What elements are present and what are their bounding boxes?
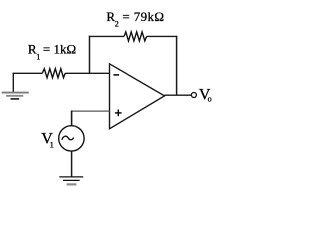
op-amp minus sign xyxy=(113,74,119,76)
resistor R2 xyxy=(124,32,147,41)
wire: feedback right vertical xyxy=(176,36,178,96)
source V1 xyxy=(59,126,84,151)
wire: V1 bottom vertical xyxy=(71,151,73,177)
op-amp plus sign xyxy=(115,110,122,117)
wire: V1 top vertical xyxy=(71,111,73,126)
wire: feedback left vertical xyxy=(89,36,91,74)
wire: noninverting input horizontal xyxy=(71,110,110,112)
V1 sine tilde xyxy=(62,136,74,140)
wire: R1 to inverting input xyxy=(65,72,109,74)
wire: ground to R1 xyxy=(13,72,43,74)
svg-text:1: 1 xyxy=(50,140,54,150)
label R2 = 79kΩ xyxy=(106,9,164,29)
svg-text:= 1kΩ: = 1kΩ xyxy=(43,42,76,57)
label R1 = 1kΩ xyxy=(28,42,76,62)
svg-text:2: 2 xyxy=(115,20,119,29)
wire: top rail left xyxy=(89,35,124,37)
label V1 xyxy=(41,130,54,149)
ground GND1 (left, signal ground) xyxy=(2,73,29,99)
svg-text:= 79kΩ: = 79kΩ xyxy=(122,9,164,24)
svg-text:1: 1 xyxy=(36,52,40,61)
label Vo xyxy=(199,86,212,103)
resistor R1 xyxy=(42,69,65,78)
svg-text:o: o xyxy=(208,95,212,104)
wire: top rail right xyxy=(147,35,178,37)
ground GND2 (bottom) xyxy=(59,177,83,185)
output terminal circle xyxy=(191,93,196,98)
wire: op-amp output xyxy=(165,94,192,96)
op-amp U1 xyxy=(110,64,165,129)
